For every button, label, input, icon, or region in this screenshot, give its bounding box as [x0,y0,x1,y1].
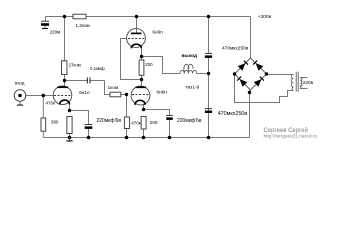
triode V2 6n6p [131,86,167,105]
wire V3 cathode resistor 390 to rail [69,134,71,138]
capacitor 220m electrolytic [41,21,60,34]
resistor 200 V1 cathode [139,60,153,75]
svg-text:220м: 220м [50,29,61,34]
svg-text:470мкх250в: 470мкх250в [218,111,248,117]
node V2 grid [125,93,128,96]
wire V2 grid resistor [126,95,128,118]
svg-text:1,2ком: 1,2ком [76,23,90,28]
triode V1 6n6p [127,29,164,49]
svg-text:твз1-9: твз1-9 [185,85,199,91]
wire V3 cathode cap to rail [88,129,90,138]
wire V2 cathode cap to rail [169,120,171,138]
input jack [14,80,26,105]
node input grid [42,94,45,97]
wire top rail [46,16,251,18]
capacitor 220mkf 6v (V3 cathode) [85,118,122,129]
wire V2 cathode lead [143,104,145,110]
svg-text:220мкф'6в: 220мкф'6в [177,118,202,124]
wire V1 grid loop [121,39,142,80]
svg-text:220в: 220в [303,80,314,85]
wire V3 cathode lead [69,103,71,110]
wire bridge right to transformer top [267,74,294,76]
wire bridge bottom to rail [249,90,251,138]
inductor choke TVZ primary [180,64,197,73]
wire transformer secondary leads [300,78,308,89]
svg-text:6н6п: 6н6п [157,90,168,95]
diode D1 top-left [238,61,248,71]
wire V2 grid resistor to rail [126,129,128,138]
svg-text:+300в: +300в [258,14,272,20]
wire choke to node [197,73,209,75]
svg-text:6н6п: 6н6п [152,30,163,35]
diode D4 bottom-right [254,77,264,87]
wire input jack to grid [26,95,54,97]
node cap1 top rail [207,15,210,18]
svg-text:вход: вход [15,80,25,85]
secondary winding right [300,78,302,89]
node V2 cathode [142,108,145,111]
diode D2 top-right [253,61,263,71]
wire V2 cathode R200 to rail [143,129,145,138]
transformer power [291,72,302,92]
svg-text:220мкф'6в: 220мкф'6в [97,118,122,124]
wire coupling node to cap [65,80,88,82]
wire 220m cap lead [45,17,47,22]
svg-text:470мкх250в: 470мкх250в [222,46,249,52]
svg-text:http://sergeev21.narod.ru: http://sergeev21.narod.ru [264,133,318,139]
diode D3 bottom-left [237,77,247,87]
wire input resistor to rail [42,131,44,137]
svg-text:выход: выход [182,54,198,59]
wire V2 cathode to cap [144,110,170,116]
primary winding left [291,75,293,91]
wire output to choke [142,57,181,74]
svg-text:390: 390 [51,120,59,125]
wire V1 cathode lead [141,48,143,60]
resistor 1,2kom [73,14,90,28]
node coupling dot [63,79,66,82]
bridge edges [235,58,267,90]
wire +300v down to bridge [250,17,252,59]
svg-text:0,1мкф: 0,1мкф [90,66,105,71]
wire V1 anode lead [136,17,138,34]
ground [66,136,72,141]
node bridge left [233,72,236,75]
wire 27k branch [64,17,66,61]
triode V3 6n1p [53,86,90,105]
svg-text:470к: 470к [131,121,141,126]
svg-text:1ком: 1ком [108,85,119,90]
wire bridge left to transformer bottom [235,74,294,103]
capacitor 470mkf 250v upper [205,46,249,58]
node V1 anode top rail [135,15,138,18]
core [296,72,298,92]
svg-text:Сергеев Сергей: Сергеев Сергей [264,127,308,134]
node bridge bottom [248,91,251,94]
node V2 anode / V1 grid [140,78,143,81]
node 27k top rail [63,15,66,18]
capacitor 220mkf 6v (V2 cathode) [166,115,202,123]
resistor 27kom [62,61,81,75]
resistor 470k V2 grid [124,117,140,129]
resistor 470k input [41,101,55,132]
node choke right [207,72,210,75]
svg-text:6н1п: 6н1п [79,90,90,95]
svg-text:200: 200 [150,120,158,125]
resistor 390 [51,117,72,134]
node V3 cathode [68,109,71,112]
node rail dots [125,136,129,140]
svg-text:470к: 470к [46,101,56,106]
resistor 1kom [108,85,121,97]
resistor 200 V2 cathode [141,117,158,130]
wire V3 cathode to cap [70,111,89,125]
capacitor 470mkf 250v lower [205,109,248,117]
svg-text:200: 200 [145,62,153,67]
svg-text:27ком: 27ком [69,63,81,68]
wire bottom rail [43,137,249,139]
node bridge right [265,72,268,75]
wire middle column cap1 bottom to rail [208,58,210,138]
wire 27k to V3 anode [64,74,66,87]
wire middle column to cap1 [208,17,210,54]
wire R200 top to V2 anode [141,75,143,87]
wire 1k to V2 grid [121,94,127,96]
capacitor 0,1mkf [87,66,105,84]
node V1 cathode [140,55,143,58]
diode bridge [233,58,268,94]
node V3 cap bottom [87,136,91,140]
wire input grid resistor down [42,96,44,119]
wire cap 0.1 to 1k resistor [90,81,110,95]
